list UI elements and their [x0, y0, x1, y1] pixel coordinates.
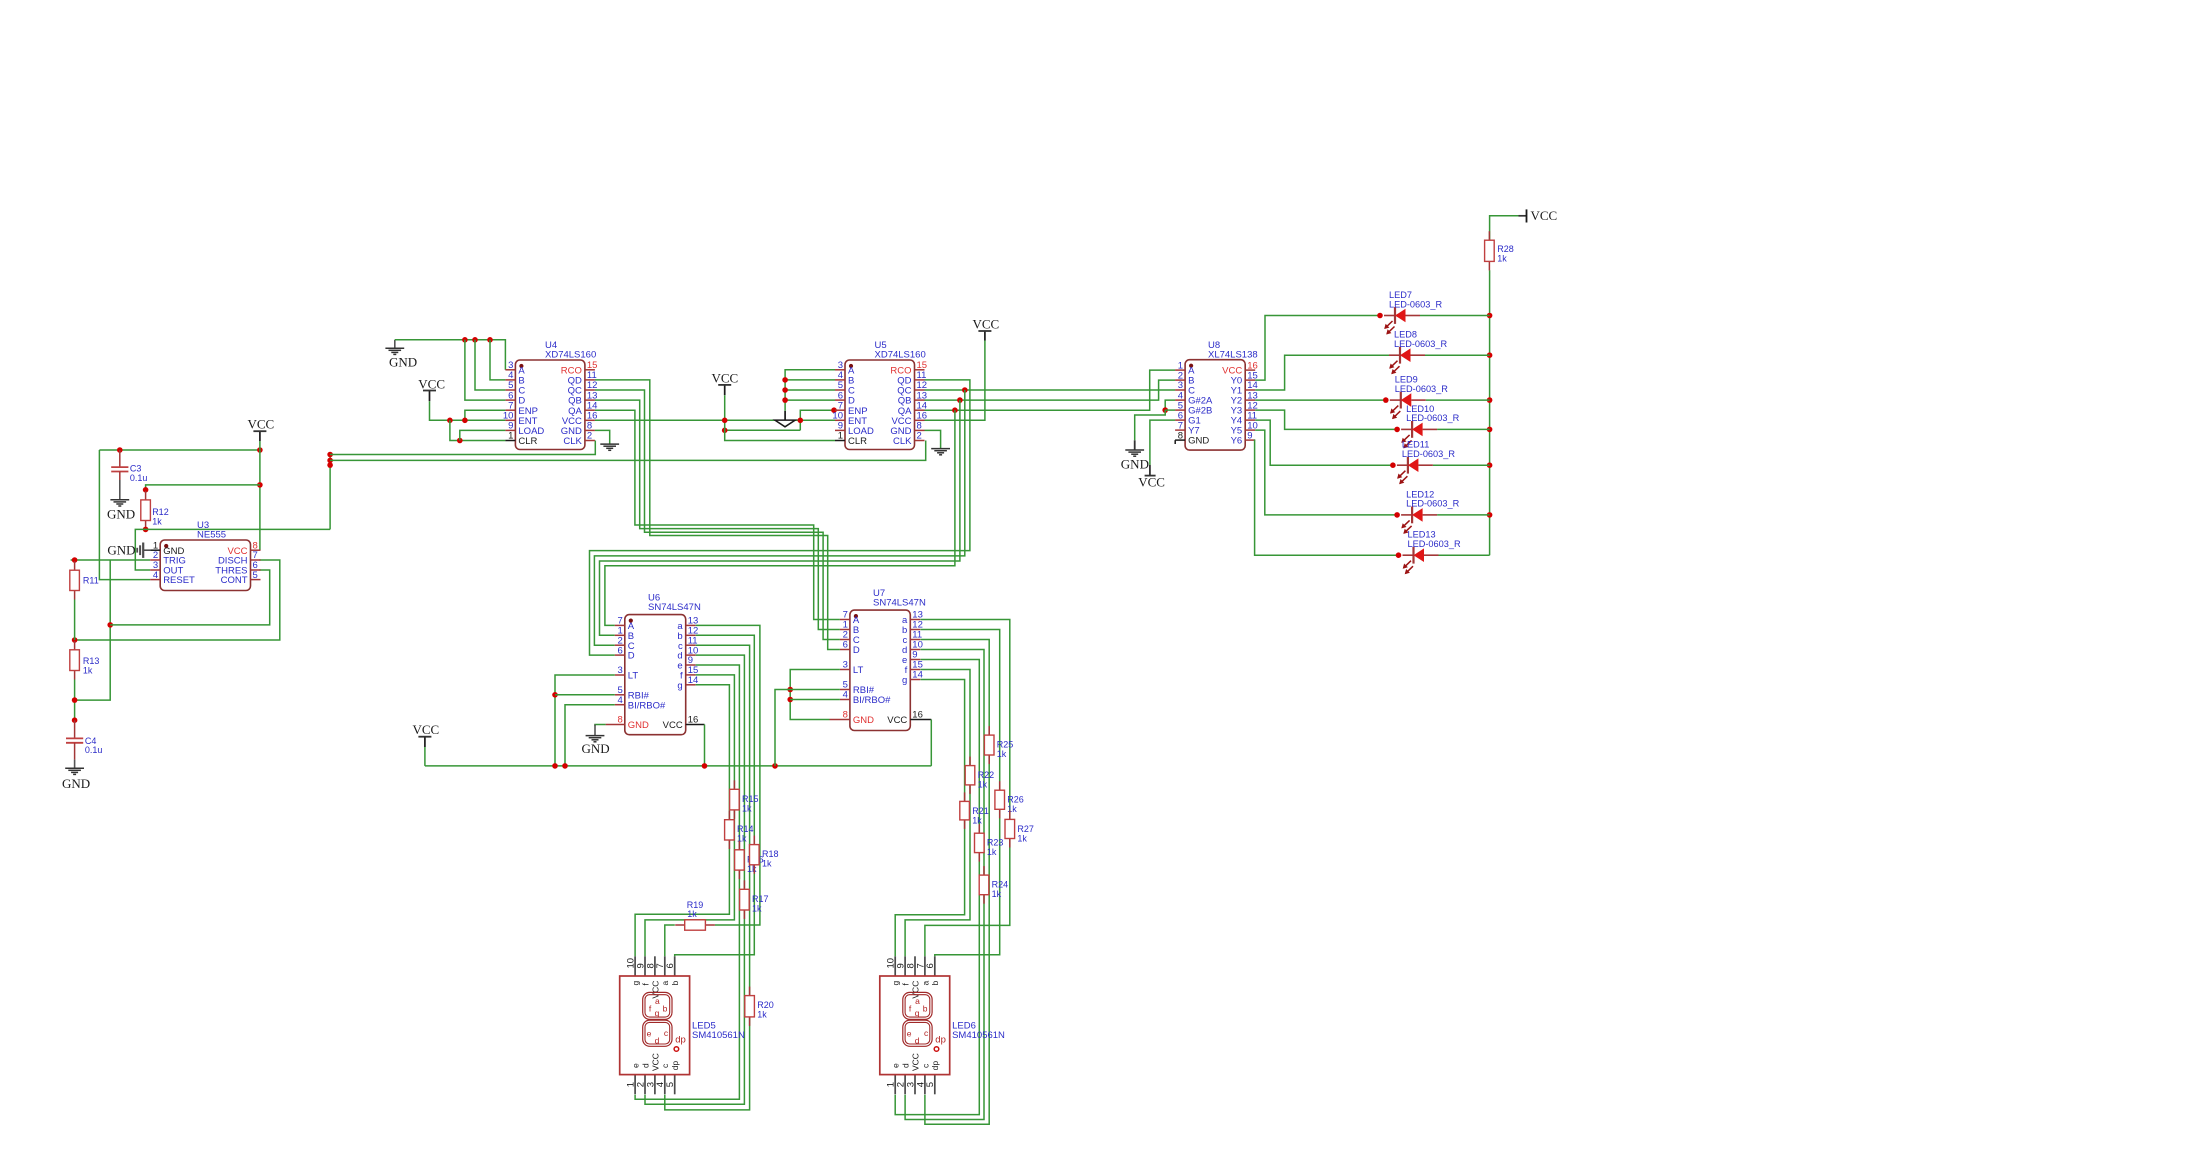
svg-text:R22: R22	[978, 770, 995, 780]
wire U5 VCC down to CLR	[725, 395, 835, 440]
svg-text:1k: 1k	[972, 815, 982, 825]
svg-text:8: 8	[1178, 430, 1183, 441]
capacitor C3	[111, 467, 128, 471]
svg-text:g: g	[631, 981, 641, 986]
svg-text:1k: 1k	[997, 749, 1007, 759]
wire OUT vertical to clock rails	[329, 455, 331, 530]
led LED9	[1390, 375, 1448, 420]
junction C3 top	[117, 447, 123, 453]
op-amp U3 NE555 timer	[150, 520, 260, 591]
svg-text:GND: GND	[582, 741, 610, 756]
resistor R26	[995, 781, 1024, 818]
svg-text:dp: dp	[670, 1061, 680, 1071]
svg-text:2: 2	[917, 431, 922, 442]
wire C3 bottom lead	[119, 472, 121, 481]
wire TRIG-THRES vertical	[75, 560, 110, 700]
svg-text:RESET: RESET	[163, 575, 195, 586]
svg-text:R25: R25	[997, 740, 1014, 750]
wire seg g U7 to LED6 pin10	[895, 680, 964, 957]
wire clock to U5 CLK	[330, 441, 926, 461]
svg-text:LED-0603_R: LED-0603_R	[1406, 499, 1459, 509]
wire U7 RBI# to rail	[775, 690, 840, 766]
svg-text:LED-0603_R: LED-0603_R	[1408, 539, 1461, 549]
svg-text:c: c	[924, 1028, 929, 1038]
wire U8 G2B stub link	[1165, 409, 1175, 411]
wire U5 VCC16 drop	[925, 341, 985, 421]
svg-text:LED-0603_R: LED-0603_R	[1402, 449, 1455, 459]
resistor R27	[1005, 810, 1034, 847]
resistor R25	[984, 726, 1013, 764]
wire bottom VCC rail	[425, 765, 931, 767]
wire seg f U7 to LED6 pin9	[905, 670, 970, 957]
junction U6 RBI tap	[552, 692, 558, 698]
svg-text:GND: GND	[628, 720, 649, 731]
junction rail U6 BI	[562, 763, 568, 769]
svg-text:g: g	[677, 680, 682, 691]
wire U4 LOAD tap	[460, 430, 506, 440]
wire seg e U6 to LED5 pin1	[635, 665, 739, 1099]
junction TRIG/R11	[72, 557, 78, 563]
led LED8	[1389, 330, 1447, 375]
svg-text:1k: 1k	[762, 859, 772, 869]
svg-text:CONT: CONT	[221, 575, 248, 586]
wire VCC symbol stem (U3 area)	[259, 431, 261, 441]
wire U8 G1 to VCC	[1150, 420, 1175, 465]
ground below U5	[931, 449, 950, 455]
junction R13/C4 node	[72, 697, 78, 703]
wire U5 C tap	[785, 389, 835, 391]
power VCC (top right)	[1527, 208, 1558, 223]
svg-text:6: 6	[618, 645, 623, 656]
junction U4 D tap	[462, 337, 468, 343]
svg-text:Y6: Y6	[1231, 436, 1243, 447]
svg-text:VCC: VCC	[650, 1053, 660, 1071]
ground below C3	[110, 500, 129, 506]
wire U5 inputs to ground arrow	[785, 370, 835, 411]
wire U5 VCC symbol stem	[724, 385, 726, 395]
junction anode bus at LED8	[1487, 352, 1493, 358]
junction U5 ENT right	[798, 418, 804, 424]
svg-text:e: e	[907, 1028, 912, 1038]
wire LED8 anode to bus	[1425, 354, 1490, 356]
wire U6 LT down to VCC rail	[555, 675, 615, 766]
svg-text:1k: 1k	[1497, 254, 1507, 264]
svg-text:R24: R24	[992, 880, 1009, 890]
svg-text:5: 5	[253, 570, 258, 581]
svg-text:g: g	[915, 1008, 920, 1018]
wire U4 data-input ground rail	[395, 340, 506, 370]
svg-text:1k: 1k	[992, 889, 1002, 899]
U7 VCC pin stub	[910, 719, 931, 721]
power VCC below U8	[1138, 465, 1165, 490]
wire Y0 to LED7	[1255, 316, 1380, 381]
svg-text:LED-0603_R: LED-0603_R	[1389, 299, 1442, 309]
ground below U4	[600, 444, 619, 450]
junction VCC stub	[257, 447, 263, 453]
svg-text:CLR: CLR	[848, 436, 867, 447]
junction rail U6 LT	[552, 763, 558, 769]
svg-text:e: e	[631, 1063, 641, 1068]
svg-text:c: c	[660, 1063, 670, 1068]
wire to U4 C	[475, 340, 505, 390]
svg-text:VCC: VCC	[910, 1053, 920, 1071]
wire C3 top lead	[119, 450, 121, 467]
wire LED11 anode to bus	[1433, 464, 1490, 466]
wire U4 ENP to ENT	[465, 410, 506, 420]
svg-text:VCC: VCC	[418, 376, 445, 391]
ground arrow below U5 inputs	[775, 411, 795, 427]
wire clock to U4 CLK	[330, 441, 595, 455]
wire seg a U7 to LED6 pin7	[921, 620, 1010, 957]
wire U4 ground stem	[394, 340, 396, 348]
junction clock node C	[327, 462, 333, 468]
svg-text:1k: 1k	[757, 1010, 767, 1020]
junction LED11 cathode	[1390, 462, 1396, 468]
resistor R14	[725, 811, 754, 849]
wire TRIG horizontal	[71, 559, 151, 561]
wire U3 OUT up and right	[135, 529, 330, 570]
svg-text:1k: 1k	[737, 834, 747, 844]
wire U5 QD to U6 D	[590, 380, 970, 655]
svg-text:NE555: NE555	[197, 530, 226, 541]
wire U4 VCC to ENT	[430, 401, 506, 420]
svg-text:BI/RBO#: BI/RBO#	[853, 695, 891, 706]
svg-text:1k: 1k	[152, 516, 162, 526]
svg-text:SN74LS47N: SN74LS47N	[648, 602, 701, 613]
wire U8 G2 to ground	[1135, 410, 1166, 440]
junction U5 D	[782, 397, 788, 403]
svg-text:XL74LS138: XL74LS138	[1208, 350, 1258, 361]
junction U7 RBI tap	[787, 687, 793, 693]
svg-text:SM410561N: SM410561N	[692, 1030, 745, 1041]
wire U4 QA to U7 A	[595, 410, 840, 619]
wire VCC symbol tail (top right)	[1519, 215, 1527, 217]
svg-text:g: g	[655, 1008, 660, 1018]
decoder U8 XL74LS138	[1175, 340, 1258, 450]
svg-text:1k: 1k	[752, 903, 762, 913]
wire U4 VCC symbol stem	[429, 391, 431, 402]
resistor R17	[740, 880, 769, 919]
svg-text:GND: GND	[1188, 436, 1209, 447]
junction LED9 cathode	[1383, 397, 1389, 403]
svg-text:0.1u: 0.1u	[85, 745, 103, 755]
svg-text:9: 9	[1247, 430, 1252, 441]
junction LED7 cathode	[1377, 313, 1383, 319]
wire Y4 to LED11	[1255, 420, 1393, 465]
svg-text:1k: 1k	[1007, 804, 1017, 814]
junction anode bus at LED10	[1487, 427, 1493, 433]
svg-text:6: 6	[925, 963, 936, 968]
wire to U4 D	[465, 340, 506, 400]
wire U5 QC to U8 C	[925, 389, 1176, 391]
resistor R11	[70, 561, 99, 599]
led LED11	[1397, 440, 1455, 485]
svg-text:R14: R14	[737, 824, 754, 834]
svg-text:GND: GND	[107, 543, 135, 558]
wire U6 RBI#	[555, 694, 615, 696]
junction R11/R13/DISCH	[72, 637, 78, 643]
junction LED13 cathode	[1396, 552, 1402, 558]
wire LED anode bus	[1489, 270, 1491, 555]
svg-text:d: d	[915, 1035, 920, 1045]
wire seg d U7 to LED6 pin2	[905, 650, 984, 1120]
svg-text:D: D	[853, 645, 860, 656]
display LED5 SM410561N	[620, 956, 745, 1094]
junction U4 ENT node1	[447, 418, 453, 424]
ground at U3 pin 1	[137, 543, 150, 558]
svg-text:GND: GND	[389, 355, 417, 370]
svg-text:a: a	[660, 981, 670, 986]
svg-text:b: b	[670, 981, 680, 986]
wire U6 ground stem	[594, 725, 596, 736]
svg-text:1: 1	[838, 431, 843, 442]
junction QB bus tap	[957, 397, 963, 403]
display LED6 SM410561N	[880, 956, 1005, 1094]
wire C4 top lead	[74, 720, 76, 738]
svg-text:VCC: VCC	[1531, 208, 1558, 223]
svg-text:0.1u: 0.1u	[130, 473, 148, 483]
junction U5 VCC mid	[722, 428, 728, 434]
ground above U4	[385, 348, 404, 354]
resistor R19	[675, 900, 715, 930]
wire VCC rail down to RESET	[99, 450, 150, 580]
svg-text:dp: dp	[935, 1034, 946, 1045]
wire U5 QA to U8 A	[925, 370, 1176, 410]
junction U5 B	[782, 377, 788, 383]
svg-text:VCC: VCC	[712, 371, 739, 386]
svg-text:GND: GND	[107, 506, 135, 521]
U6 VCC pin stub	[686, 724, 705, 726]
svg-text:CLK: CLK	[893, 436, 912, 447]
wire LED7 anode to bus	[1420, 315, 1490, 317]
wire U5 VCC16 symbol stem	[984, 331, 986, 341]
power VCC (bottom rail)	[413, 722, 440, 737]
wire U5 ENP down to ENT	[800, 410, 835, 430]
svg-text:1k: 1k	[978, 780, 988, 790]
svg-text:R21: R21	[972, 806, 989, 816]
junction anode bus at LED12	[1487, 512, 1493, 518]
svg-text:4: 4	[618, 695, 623, 706]
ground below C4	[65, 768, 84, 774]
junction C4 top wire end	[72, 717, 78, 723]
wire U4 VCC16 rail to U5 ENT	[595, 419, 835, 421]
svg-text:VCC: VCC	[663, 720, 683, 731]
svg-text:GND: GND	[853, 715, 874, 726]
resistor R18	[750, 836, 779, 874]
wire U5 GND pin to ground	[925, 430, 941, 448]
wire LED10 anode to bus	[1437, 428, 1490, 430]
svg-text:C3: C3	[130, 463, 142, 473]
wire seg d U6 to LED5 pin2	[645, 655, 744, 1104]
wire Y5 to LED12	[1255, 430, 1397, 515]
junction rail U6 VCC	[702, 763, 708, 769]
wire Y3 to LED10	[1255, 410, 1397, 429]
wire U8 GND pin tick	[1174, 440, 1176, 444]
wire rail VCC drop	[424, 747, 426, 766]
svg-text:SM410561N: SM410561N	[952, 1030, 1005, 1041]
svg-text:LT: LT	[628, 671, 639, 682]
svg-text:R20: R20	[757, 1000, 774, 1010]
svg-text:6: 6	[843, 640, 848, 651]
svg-text:CLR: CLR	[518, 436, 537, 447]
wire U5 D tap	[785, 399, 835, 401]
wire U5 QB to U8 B	[925, 380, 1176, 400]
svg-text:XD74LS160: XD74LS160	[875, 350, 926, 361]
svg-text:R23: R23	[987, 838, 1004, 848]
ground below U6	[586, 736, 605, 742]
svg-text:1k: 1k	[1017, 833, 1027, 843]
wire C3 to ground	[119, 480, 121, 500]
svg-text:2: 2	[587, 431, 592, 442]
svg-text:5: 5	[665, 1082, 676, 1087]
svg-text:dp: dp	[930, 1061, 940, 1071]
svg-text:4: 4	[153, 570, 158, 581]
wire U8 G2A to G2B	[1165, 400, 1175, 410]
power VCC (U4)	[418, 376, 445, 391]
wire U4 QD to U7 D	[595, 380, 840, 650]
wire QB to U6 B	[600, 400, 960, 635]
wire U7 VCC16 down to rail	[930, 720, 932, 766]
wire U4 ENT to CLR	[450, 420, 506, 440]
wire U5 B tap	[785, 379, 835, 381]
junction QC bus tap	[962, 387, 968, 393]
svg-text:R17: R17	[752, 894, 769, 904]
led LED7	[1384, 290, 1442, 335]
wire LED12 anode to bus	[1437, 514, 1490, 516]
svg-text:c: c	[920, 1063, 930, 1068]
resistor R15	[730, 780, 759, 819]
svg-text:1k: 1k	[83, 665, 93, 675]
wire R28 top to VCC	[1490, 216, 1519, 240]
svg-text:d: d	[640, 1063, 650, 1068]
svg-text:R28: R28	[1497, 244, 1514, 254]
svg-text:D: D	[628, 651, 635, 662]
wire seg c U7 to LED6 pin4	[921, 640, 990, 1125]
wire seg f U6 to LED5 pin9	[645, 675, 734, 956]
svg-text:6: 6	[665, 963, 676, 968]
svg-text:R13: R13	[83, 656, 100, 666]
wire U6 VCC16 down to rail	[704, 725, 706, 766]
ground below U8	[1125, 450, 1144, 456]
wire seg e U7 to LED6 pin1	[895, 660, 979, 1115]
svg-text:BI/RBO#: BI/RBO#	[628, 700, 666, 711]
junction U5 ENP pin	[831, 407, 837, 413]
wire rail VCC symbol stem	[424, 737, 426, 747]
svg-text:g: g	[891, 981, 901, 986]
wire to U4 B	[490, 340, 505, 380]
junction U4 CLR/LOAD	[457, 438, 463, 444]
junction U5 ENT left	[722, 418, 728, 424]
led LED12	[1401, 489, 1459, 534]
junction anode bus at LED9	[1487, 397, 1493, 403]
wire seg a U6 to R19	[696, 625, 760, 925]
svg-text:VCC: VCC	[1138, 475, 1165, 490]
junction clock node A	[327, 452, 333, 458]
svg-text:3: 3	[618, 665, 623, 676]
svg-text:CLK: CLK	[563, 436, 582, 447]
capacitor C4	[66, 738, 83, 742]
resistor R20	[745, 987, 774, 1026]
wire U6 GND to ground	[595, 725, 606, 727]
wire QA to U6 A	[605, 410, 955, 625]
junction rail U7 RBI	[772, 763, 778, 769]
svg-text:R15: R15	[742, 794, 759, 804]
junction R12 top wire end	[143, 487, 149, 493]
wire R13 bottom to C4	[74, 680, 76, 721]
wire seg c U6 to LED5 pin4	[665, 645, 750, 1110]
svg-text:LED-0603_R: LED-0603_R	[1395, 384, 1448, 394]
svg-text:e: e	[891, 1063, 901, 1068]
svg-text:VCC: VCC	[973, 317, 1000, 332]
junction VCC/R12 line	[257, 482, 263, 488]
junction U4 ENT node2	[462, 418, 468, 424]
resistor R16	[735, 841, 764, 879]
resistor R12	[141, 491, 169, 530]
wire Y6 to LED13	[1255, 440, 1399, 555]
wire seg b U7 to LED6 pin6	[921, 630, 1000, 957]
svg-text:LED-0603_R: LED-0603_R	[1406, 413, 1459, 423]
resistor R28	[1485, 231, 1514, 270]
svg-text:XD74LS160: XD74LS160	[545, 350, 596, 361]
junction anode bus at LED11	[1487, 462, 1493, 468]
junction LED10 cathode	[1394, 427, 1400, 433]
wire U8 ground stem	[1134, 440, 1136, 450]
svg-text:1k: 1k	[742, 803, 752, 813]
resistor R23	[975, 824, 1004, 861]
resistor R21	[960, 792, 989, 829]
wire U4 QC to U7 C	[595, 390, 840, 640]
junction R12 bottom on OUT net	[143, 527, 149, 533]
svg-text:1k: 1k	[987, 847, 997, 857]
wire Y1 to LED8	[1255, 355, 1389, 390]
counter U5 XD74LS160	[832, 340, 927, 450]
svg-text:d: d	[901, 1063, 911, 1068]
junction U5 C	[782, 387, 788, 393]
wire VCC top rail at y=450	[99, 449, 260, 451]
svg-text:LT: LT	[853, 665, 864, 676]
svg-text:d: d	[655, 1035, 660, 1045]
resistor R13	[70, 641, 100, 680]
junction LED12 cathode	[1394, 512, 1400, 518]
wire THRES loop	[110, 570, 270, 625]
resistor R24	[979, 866, 1008, 904]
junction clock node B	[327, 458, 333, 464]
svg-text:R11: R11	[83, 575, 99, 585]
wire U7 BI/RBO#	[790, 699, 840, 701]
wire C4 to ground	[74, 760, 76, 769]
svg-text:GND: GND	[1121, 457, 1149, 472]
svg-text:a: a	[655, 996, 660, 1006]
svg-text:1k: 1k	[687, 909, 697, 919]
svg-text:a: a	[920, 981, 930, 986]
wire R12 top to VCC vertical	[146, 485, 260, 490]
wire seg g U6 to LED5 pin10	[635, 685, 729, 957]
counter U4 XD74LS160	[503, 340, 598, 450]
svg-text:R18: R18	[762, 849, 779, 859]
junction THRES tap	[107, 622, 113, 628]
U6 GND pin stub	[606, 724, 625, 726]
wire LED9 anode to bus	[1426, 399, 1490, 401]
decoder U7 SN74LS47N	[840, 588, 926, 731]
wire Y2 to LED9	[1255, 399, 1386, 401]
svg-text:a: a	[915, 996, 920, 1006]
junction U7 BI tap	[787, 697, 793, 703]
wire C4 bottom lead	[74, 743, 76, 760]
led LED13	[1403, 530, 1461, 575]
wire U5 ENT loop	[725, 429, 801, 431]
wire U4 QB to U7 B	[595, 400, 840, 629]
power VCC (U5 pin16)	[973, 317, 1000, 332]
